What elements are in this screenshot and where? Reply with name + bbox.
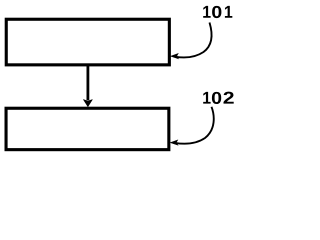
leader arrow to block 101 [171, 23, 212, 59]
block 102 [6, 108, 169, 149]
block 101 [6, 19, 169, 65]
label 102 [203, 92, 234, 104]
leader arrow to block 102 [170, 107, 213, 145]
label 101 [203, 6, 232, 18]
wire: arrow from block 101 down to block 102 [83, 66, 92, 107]
